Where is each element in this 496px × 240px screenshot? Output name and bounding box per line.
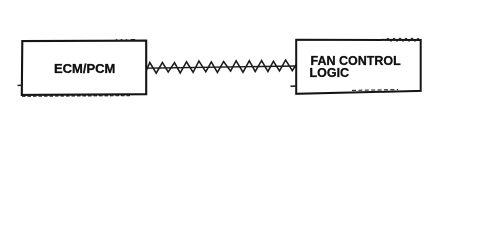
scan noise: small tick left of ECM box at y=85 <box>18 84 22 86</box>
scan noise: small tick left of FAN box at y=86 <box>291 85 297 87</box>
block ECM/PCM (box outline) <box>22 41 146 95</box>
block FAN CONTROL LOGIC (box outline) <box>296 40 421 94</box>
svg-text:LOGIC: LOGIC <box>310 66 350 80</box>
scan noise: dashed ghost above FAN box bottom edge <box>352 89 398 92</box>
svg-text:ECM/PCM: ECM/PCM <box>54 61 115 76</box>
scan noise: doubled jagged retrace above FAN box top edge <box>385 38 421 41</box>
wire: twisted/zigzag overwrap <box>147 60 297 73</box>
scan noise: dashed ghost below ECM box bottom edge <box>22 95 130 98</box>
scan noise: wiggle retrace on ECM box top edge <box>114 40 137 42</box>
wire: straight conductor between blocks <box>147 66 297 68</box>
